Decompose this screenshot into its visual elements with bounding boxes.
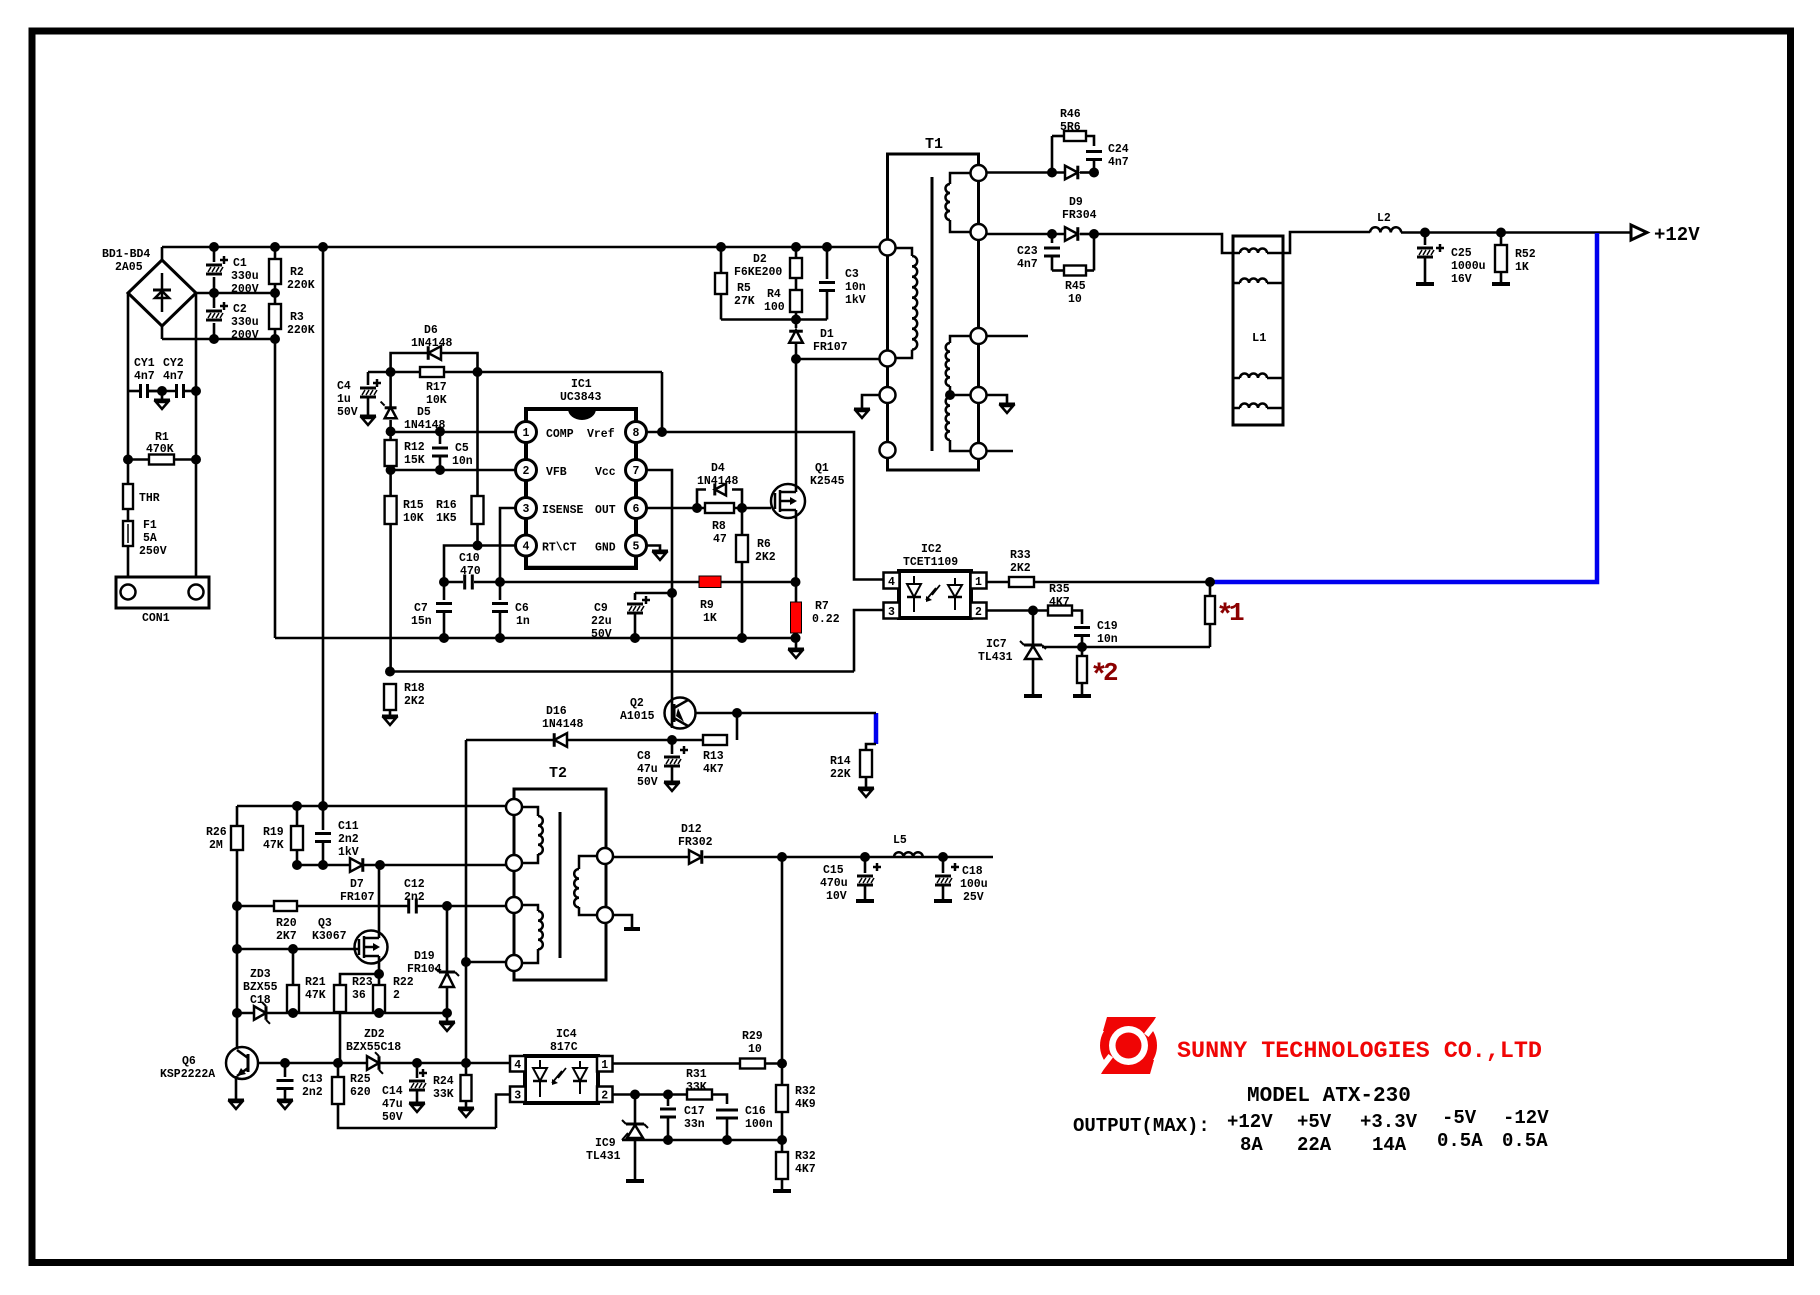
svg-text:FR104: FR104	[407, 963, 442, 976]
svg-text:CON1: CON1	[142, 612, 170, 625]
svg-text:470K: 470K	[146, 443, 174, 456]
svg-text:C17: C17	[684, 1105, 705, 1118]
svg-text:4n7: 4n7	[134, 370, 155, 383]
svg-text:330u: 330u	[231, 270, 259, 283]
svg-text:620: 620	[350, 1086, 371, 1099]
svg-text:R14: R14	[830, 755, 851, 768]
svg-text:0.5A: 0.5A	[1437, 1130, 1483, 1152]
svg-text:BZX55: BZX55	[243, 981, 278, 994]
svg-text:7: 7	[633, 465, 640, 478]
svg-text:F1: F1	[143, 519, 157, 532]
svg-text:4K7: 4K7	[1049, 596, 1070, 609]
svg-text:2A05: 2A05	[115, 261, 143, 274]
svg-text:100u: 100u	[960, 878, 988, 891]
svg-text:220K: 220K	[287, 279, 315, 292]
svg-text:D2: D2	[753, 253, 767, 266]
svg-text:50V: 50V	[382, 1111, 403, 1124]
svg-text:1N4148: 1N4148	[542, 718, 584, 731]
svg-text:1n: 1n	[516, 615, 530, 628]
svg-text:36: 36	[352, 989, 366, 1002]
svg-text:L1: L1	[1252, 331, 1266, 345]
svg-text:1N4148: 1N4148	[411, 337, 453, 350]
svg-text:250V: 250V	[139, 545, 167, 558]
svg-text:1: 1	[1229, 598, 1245, 628]
svg-text:+5V: +5V	[1297, 1111, 1332, 1133]
svg-text:100: 100	[764, 301, 785, 314]
svg-text:R46: R46	[1060, 108, 1081, 121]
svg-text:2: 2	[975, 606, 982, 619]
svg-text:K2545: K2545	[810, 475, 845, 488]
svg-text:33K: 33K	[433, 1088, 454, 1101]
svg-text:L5: L5	[893, 834, 907, 847]
svg-text:VFB: VFB	[546, 466, 567, 479]
svg-text:Q3: Q3	[318, 917, 332, 930]
svg-text:C18: C18	[962, 865, 983, 878]
svg-text:R8: R8	[712, 520, 726, 533]
svg-text:Vcc: Vcc	[595, 466, 616, 479]
svg-text:1kV: 1kV	[338, 846, 359, 859]
svg-text:C7: C7	[414, 602, 428, 615]
svg-text:0.22: 0.22	[812, 613, 840, 626]
svg-text:10n: 10n	[1097, 633, 1118, 646]
svg-text:C12: C12	[404, 878, 425, 891]
svg-text:A1015: A1015	[620, 710, 655, 723]
svg-text:Q1: Q1	[815, 462, 829, 475]
svg-text:TL431: TL431	[586, 1150, 621, 1163]
svg-text:47K: 47K	[305, 989, 326, 1002]
svg-text:10V: 10V	[826, 890, 847, 903]
svg-text:2K2: 2K2	[755, 551, 776, 564]
svg-text:FR107: FR107	[340, 891, 375, 904]
svg-text:1: 1	[975, 576, 982, 589]
svg-text:8: 8	[633, 427, 640, 440]
svg-text:22A: 22A	[1297, 1134, 1332, 1156]
svg-text:D5: D5	[417, 406, 431, 419]
svg-text:UC3843: UC3843	[560, 391, 602, 404]
svg-text:IC4: IC4	[556, 1028, 577, 1041]
svg-text:50V: 50V	[591, 628, 612, 641]
svg-text:1N4148: 1N4148	[697, 475, 739, 488]
svg-text:R13: R13	[703, 750, 724, 763]
svg-text:C24: C24	[1108, 143, 1129, 156]
svg-text:2: 2	[601, 1090, 608, 1103]
svg-text:T2: T2	[549, 765, 567, 782]
svg-text:4: 4	[888, 576, 895, 589]
svg-text:BD1-BD4: BD1-BD4	[102, 248, 150, 261]
svg-text:D12: D12	[681, 823, 702, 836]
svg-text:200V: 200V	[231, 329, 259, 342]
svg-text:OUTPUT(MAX):: OUTPUT(MAX):	[1073, 1115, 1210, 1137]
svg-text:ZD2: ZD2	[364, 1028, 385, 1041]
svg-text:R19: R19	[263, 826, 284, 839]
svg-text:R33: R33	[1010, 549, 1031, 562]
svg-text:1000u: 1000u	[1451, 260, 1486, 273]
svg-text:5: 5	[633, 541, 640, 554]
svg-text:22K: 22K	[830, 768, 851, 781]
svg-text:14A: 14A	[1372, 1134, 1407, 1156]
svg-text:THR: THR	[139, 492, 160, 505]
svg-text:ZD3: ZD3	[250, 968, 271, 981]
svg-text:R4: R4	[767, 288, 781, 301]
svg-text:10: 10	[1068, 293, 1082, 306]
svg-text:2n2: 2n2	[302, 1086, 323, 1099]
svg-text:47: 47	[713, 533, 727, 546]
svg-text:R3: R3	[290, 311, 304, 324]
svg-text:6: 6	[633, 503, 640, 516]
svg-text:C25: C25	[1451, 247, 1472, 260]
svg-text:470: 470	[460, 565, 481, 578]
svg-text:R35: R35	[1049, 583, 1070, 596]
svg-text:IC2: IC2	[921, 543, 942, 556]
svg-text:CY1: CY1	[134, 357, 155, 370]
svg-text:C18: C18	[250, 994, 271, 1007]
svg-text:R18: R18	[404, 682, 425, 695]
svg-text:D19: D19	[414, 950, 435, 963]
svg-text:R6: R6	[757, 538, 771, 551]
svg-text:C2: C2	[233, 303, 247, 316]
svg-text:C8: C8	[637, 750, 651, 763]
svg-text:4n7: 4n7	[163, 370, 184, 383]
svg-text:TCET1109: TCET1109	[903, 556, 958, 569]
svg-text:KSP2222A: KSP2222A	[160, 1068, 215, 1081]
svg-text:3: 3	[888, 606, 895, 619]
svg-text:R12: R12	[404, 441, 425, 454]
svg-text:R9: R9	[700, 599, 714, 612]
svg-text:817C: 817C	[550, 1041, 578, 1054]
svg-text:3: 3	[514, 1090, 521, 1103]
svg-text:2K2: 2K2	[1010, 562, 1031, 575]
svg-text:47u: 47u	[637, 763, 658, 776]
svg-text:4n7: 4n7	[1108, 156, 1129, 169]
svg-text:R45: R45	[1065, 280, 1086, 293]
svg-text:GND: GND	[595, 542, 616, 555]
svg-text:2: 2	[393, 989, 400, 1002]
svg-text:C11: C11	[338, 820, 359, 833]
svg-text:1: 1	[601, 1059, 608, 1072]
svg-text:C1: C1	[233, 257, 247, 270]
svg-text:2: 2	[1103, 658, 1119, 688]
svg-text:T1: T1	[925, 136, 943, 153]
svg-text:F6KE200: F6KE200	[734, 266, 782, 279]
svg-text:R5: R5	[737, 282, 751, 295]
svg-text:BZX55C18: BZX55C18	[346, 1041, 401, 1054]
svg-text:C15: C15	[823, 864, 844, 877]
svg-text:R7: R7	[815, 600, 829, 613]
svg-text:FR107: FR107	[813, 341, 848, 354]
svg-text:D1: D1	[820, 328, 834, 341]
svg-text:0.5A: 0.5A	[1502, 1130, 1548, 1152]
svg-text:C3: C3	[845, 268, 859, 281]
svg-text:IC1: IC1	[571, 378, 592, 391]
svg-text:10n: 10n	[452, 455, 473, 468]
svg-text:16V: 16V	[1451, 273, 1472, 286]
svg-text:33K: 33K	[686, 1081, 707, 1094]
svg-text:SUNNY TECHNOLOGIES CO.,LTD: SUNNY TECHNOLOGIES CO.,LTD	[1177, 1039, 1542, 1065]
svg-text:470u: 470u	[820, 877, 848, 890]
svg-text:2K7: 2K7	[276, 930, 297, 943]
svg-text:R29: R29	[742, 1030, 763, 1043]
svg-text:C6: C6	[515, 602, 529, 615]
svg-text:1K: 1K	[1515, 261, 1529, 274]
svg-text:1: 1	[523, 427, 530, 440]
svg-text:330u: 330u	[231, 316, 259, 329]
svg-text:-12V: -12V	[1503, 1107, 1549, 1129]
svg-text:CY2: CY2	[163, 357, 184, 370]
svg-text:4K7: 4K7	[703, 763, 724, 776]
svg-text:ISENSE: ISENSE	[542, 504, 584, 517]
svg-text:C23: C23	[1017, 245, 1038, 258]
svg-text:C13: C13	[302, 1073, 323, 1086]
svg-text:50V: 50V	[337, 406, 358, 419]
svg-text:FR304: FR304	[1062, 209, 1097, 222]
svg-text:15n: 15n	[411, 615, 432, 628]
svg-text:Q6: Q6	[182, 1055, 196, 1068]
svg-text:2M: 2M	[209, 839, 223, 852]
svg-text:K3067: K3067	[312, 930, 347, 943]
svg-text:1u: 1u	[337, 393, 351, 406]
svg-text:4n7: 4n7	[1017, 258, 1038, 271]
svg-text:2n2: 2n2	[404, 891, 425, 904]
svg-text:33n: 33n	[684, 1118, 705, 1131]
svg-text:4: 4	[523, 541, 530, 554]
svg-text:8A: 8A	[1240, 1134, 1263, 1156]
svg-text:-5V: -5V	[1442, 1107, 1477, 1129]
svg-text:R20: R20	[276, 917, 297, 930]
svg-text:5R6: 5R6	[1060, 121, 1081, 134]
svg-text:4: 4	[514, 1059, 521, 1072]
svg-text:Vref: Vref	[587, 428, 615, 441]
svg-text:15K: 15K	[404, 454, 425, 467]
svg-text:10K: 10K	[403, 512, 424, 525]
svg-text:D7: D7	[350, 878, 364, 891]
svg-text:+12V: +12V	[1654, 224, 1700, 246]
svg-text:R22: R22	[393, 976, 414, 989]
svg-text:1K5: 1K5	[436, 512, 457, 525]
svg-text:10: 10	[748, 1043, 762, 1056]
svg-text:1kV: 1kV	[845, 294, 866, 307]
svg-text:D4: D4	[711, 462, 725, 475]
svg-text:4K9: 4K9	[795, 1098, 816, 1111]
svg-text:1K: 1K	[703, 612, 717, 625]
svg-text:D9: D9	[1069, 196, 1083, 209]
svg-text:R31: R31	[686, 1068, 707, 1081]
svg-text:220K: 220K	[287, 324, 315, 337]
svg-text:2K2: 2K2	[404, 695, 425, 708]
svg-text:C16: C16	[745, 1105, 766, 1118]
svg-text:R24: R24	[433, 1075, 454, 1088]
svg-text:100n: 100n	[745, 1118, 773, 1131]
svg-text:MODEL ATX-230: MODEL ATX-230	[1247, 1085, 1411, 1108]
svg-text:5A: 5A	[143, 532, 157, 545]
svg-text:C9: C9	[594, 602, 608, 615]
svg-text:R2: R2	[290, 266, 304, 279]
svg-text:R32: R32	[795, 1085, 816, 1098]
svg-text:47u: 47u	[382, 1098, 403, 1111]
svg-text:RT\CT: RT\CT	[542, 542, 577, 555]
svg-text:R16: R16	[436, 499, 457, 512]
svg-text:C19: C19	[1097, 620, 1118, 633]
svg-text:+3.3V: +3.3V	[1360, 1111, 1418, 1133]
svg-text:C14: C14	[382, 1085, 403, 1098]
svg-text:Q2: Q2	[630, 697, 644, 710]
svg-text:R15: R15	[403, 499, 424, 512]
svg-text:IC7: IC7	[986, 638, 1007, 651]
svg-text:R32: R32	[795, 1150, 816, 1163]
svg-text:COMP: COMP	[546, 428, 574, 441]
svg-text:R23: R23	[352, 976, 373, 989]
svg-text:R52: R52	[1515, 248, 1536, 261]
svg-text:C10: C10	[459, 552, 480, 565]
svg-text:R26: R26	[206, 826, 227, 839]
svg-text:10n: 10n	[845, 281, 866, 294]
svg-text:C5: C5	[455, 442, 469, 455]
svg-text:50V: 50V	[637, 776, 658, 789]
svg-text:47K: 47K	[263, 839, 284, 852]
svg-text:3: 3	[523, 503, 530, 516]
svg-text:R17: R17	[426, 381, 447, 394]
svg-text:OUT: OUT	[595, 504, 616, 517]
svg-text:C4: C4	[337, 380, 351, 393]
svg-text:22u: 22u	[591, 615, 612, 628]
svg-text:R25: R25	[350, 1073, 371, 1086]
svg-text:25V: 25V	[963, 891, 984, 904]
svg-text:27K: 27K	[734, 295, 755, 308]
svg-text:TL431: TL431	[978, 651, 1013, 664]
svg-text:+12V: +12V	[1227, 1111, 1273, 1133]
svg-text:R21: R21	[305, 976, 326, 989]
svg-text:2: 2	[523, 465, 530, 478]
svg-text:4K7: 4K7	[795, 1163, 816, 1176]
svg-text:L2: L2	[1377, 212, 1391, 225]
svg-text:FR302: FR302	[678, 836, 713, 849]
svg-text:D16: D16	[546, 705, 567, 718]
svg-text:2n2: 2n2	[338, 833, 359, 846]
svg-text:IC9: IC9	[595, 1137, 616, 1150]
svg-text:D6: D6	[424, 324, 438, 337]
